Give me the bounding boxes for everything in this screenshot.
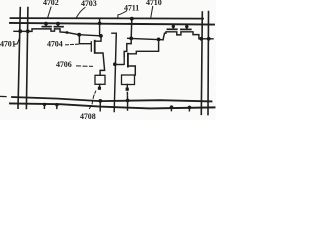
wire bottom tap stub 2 (56, 105, 58, 109)
wire leader 4703 (77, 8, 86, 18)
node bottom tap dot 3 (170, 105, 174, 109)
node gate tap dot 3 (172, 25, 175, 28)
capacitor box right (122, 75, 135, 85)
node tap-bus2 junction left (98, 22, 102, 26)
wire storage FET gate lead right (115, 64, 123, 66)
wire long vertical center (112, 33, 116, 111)
transistor pass gate stub 1 (left cell) (45, 23, 47, 26)
scan noise overlay (0, 0, 216, 120)
transistor pass gate bar 2 (54, 26, 63, 28)
bit line right A (201, 12, 202, 114)
wire capacitor ground tap left (99, 101, 101, 111)
node storage dot right (99, 34, 103, 38)
node bottom tap dot 2 (55, 103, 58, 106)
transistor storage FET gate bar right (123, 56, 125, 64)
node gate tap dot 1 (44, 22, 48, 26)
wire right cell tap to buses (130, 18, 133, 38)
wire FET source connector left (95, 53, 105, 75)
transistor pass gate stub 2 (left cell) (57, 23, 59, 26)
capacitor bottom plate square right (126, 88, 129, 91)
wire FET drain connector left (95, 36, 101, 41)
node diffusion-bitline B junction right (207, 37, 211, 41)
wire left edge tick (0, 95, 6, 97)
transistor pass gate stub 4 (right cell) (186, 25, 188, 30)
transistor pass gate bar 3 (167, 28, 176, 30)
wire bottom tap stub 3 (170, 107, 172, 110)
wire leader 4708 (90, 91, 96, 108)
wire bottom bus1 (12, 97, 212, 101)
wire leader 4701 (14, 38, 20, 45)
wire leader 4710 (151, 7, 153, 18)
wire capacitor link right (126, 93, 128, 100)
wire leader 4711 (118, 11, 127, 18)
transistor pass gate bar 4 (181, 28, 191, 30)
wire right gate staircase (124, 39, 131, 57)
wire bottom tap stub 4 (188, 107, 190, 110)
node gate tap dot 4 (185, 25, 188, 28)
wire leader 4702 (48, 7, 51, 17)
wire left cell diffusion (14, 29, 102, 36)
transistor storage FET channel left (94, 41, 96, 53)
node bottom tap dot 4 (188, 106, 192, 110)
bit line 4701 left A (18, 8, 20, 109)
bit line left B (26, 8, 28, 109)
node diffusion-bitline A junction (18, 29, 22, 33)
wire leader 4706 (77, 65, 93, 68)
wire bottom tap stub 1 (43, 104, 45, 108)
bit line right B (207, 12, 210, 115)
transistor storage FET channel right (127, 54, 129, 67)
node right storage dot right (157, 38, 161, 42)
wire word line bus2 (top) (10, 23, 214, 25)
node long vertical gate dot (113, 62, 117, 66)
node capacitor-bus junction right (126, 99, 130, 103)
wire right cell diffusion (163, 32, 213, 40)
wire word line bus1 (top) (11, 17, 204, 20)
node diffusion-bitline B junction (26, 29, 30, 33)
transistor pass gate stub 3 (right cell) (172, 24, 174, 29)
wire capacitor stub right (126, 85, 128, 88)
transistor pass gate bar 1 (42, 26, 51, 28)
node bottom tap dot 1 (43, 103, 46, 106)
node diffusion-bitline A junction right (199, 37, 203, 41)
wire FET drain connector right (128, 40, 159, 54)
node right storage dot left (129, 37, 133, 41)
wire right storage line (128, 38, 163, 40)
capacitor bottom plate square left (98, 87, 101, 90)
wire FET source connector right (128, 66, 135, 75)
node storage dot left (77, 33, 81, 37)
wire leader 4704 (66, 43, 79, 46)
capacitor 4706 box (95, 75, 105, 84)
wire bottom bus2 (10, 103, 215, 108)
wire left cell tap to buses (99, 18, 101, 36)
node diffusion dot (66, 31, 69, 34)
node capacitor-bus junction left (98, 99, 102, 103)
wire capacitor stub left (99, 84, 101, 86)
node gate tap dot 2 (56, 22, 60, 26)
wire storage FET gate lead left (79, 36, 90, 44)
transistor storage FET gate bar left (90, 42, 92, 51)
wire capacitor ground tap right (127, 101, 129, 111)
node tap-bus1 junction right (130, 17, 134, 21)
